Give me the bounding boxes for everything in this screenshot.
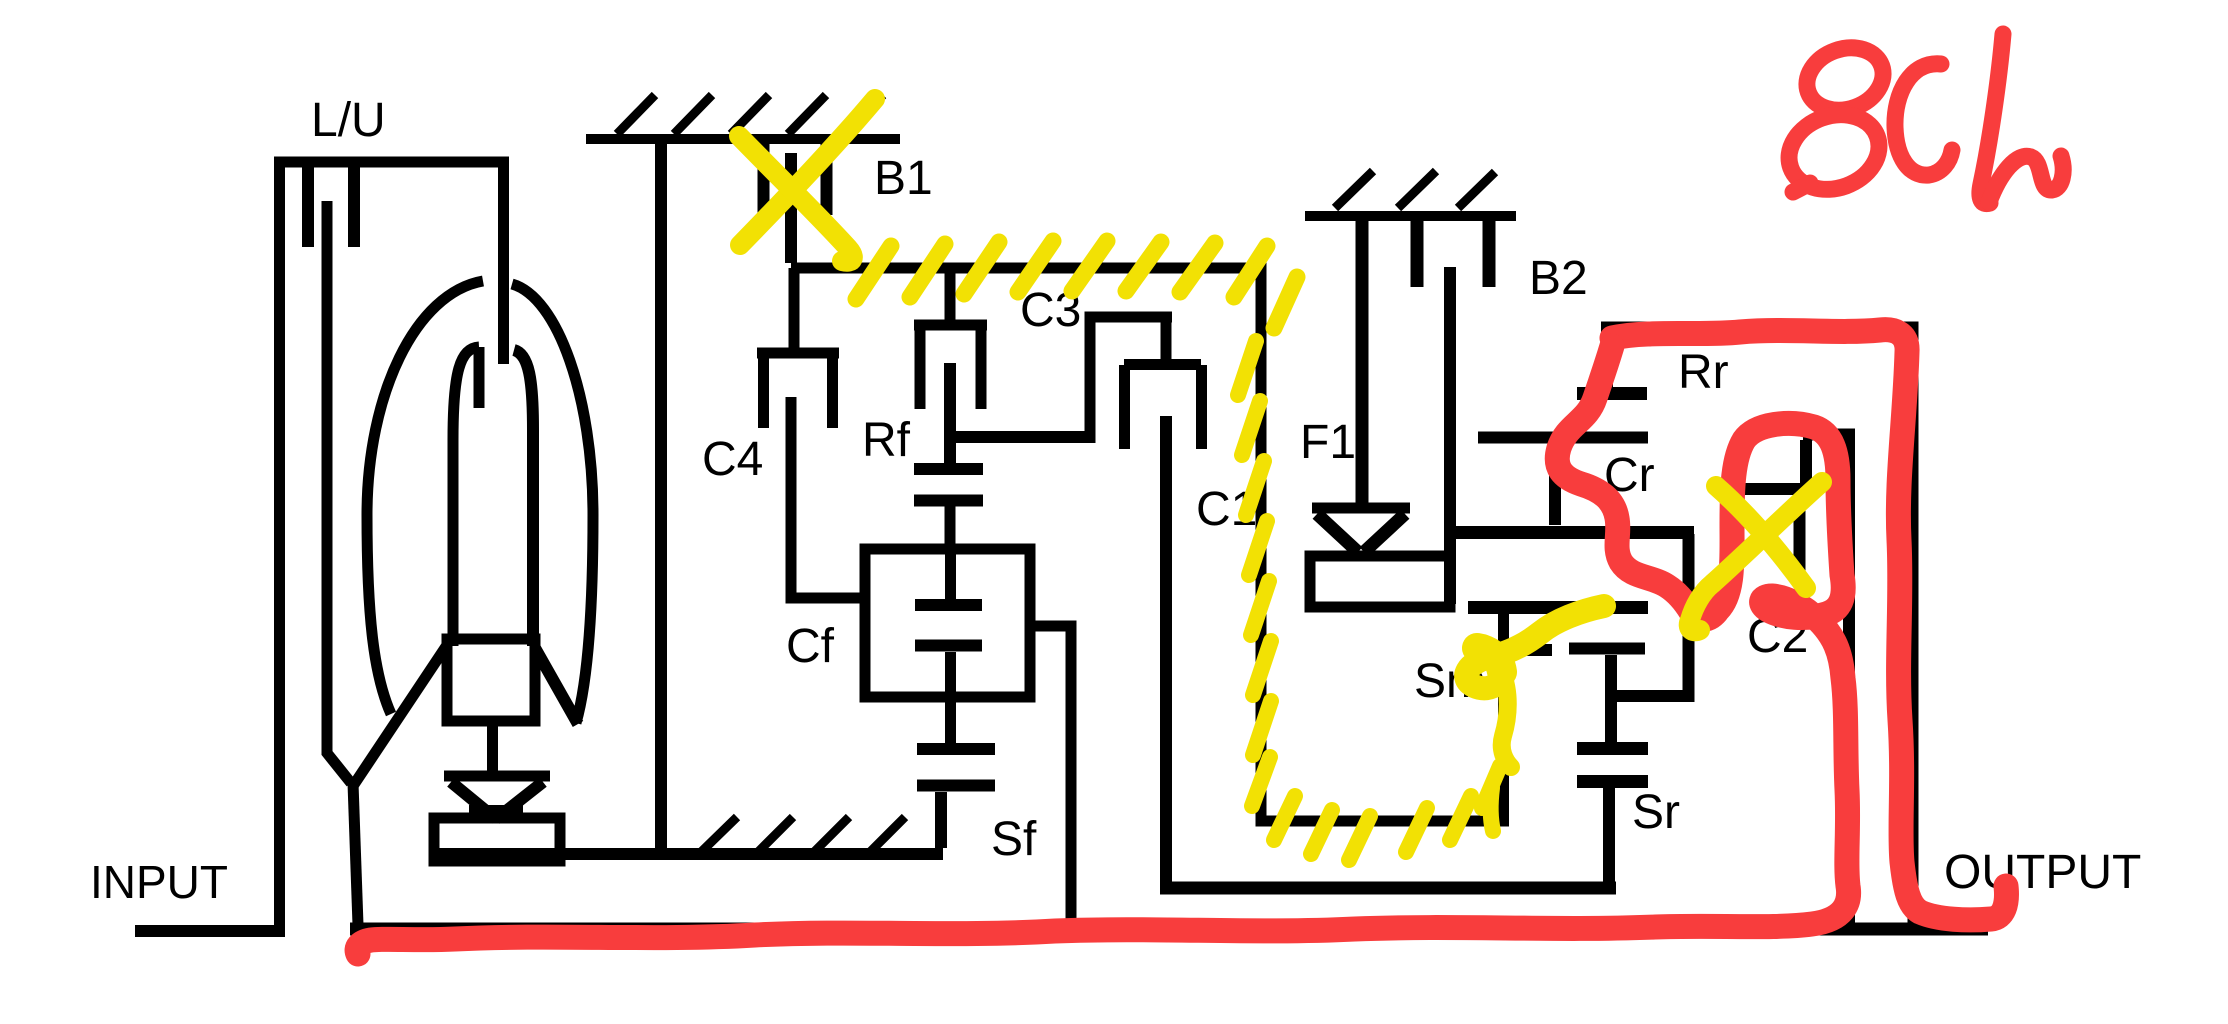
turbine right arch bbox=[514, 350, 578, 724]
one-way clutch F1 bench bbox=[1310, 556, 1450, 607]
rear frame bottom wire bbox=[1160, 882, 1616, 895]
ground hatching top bbox=[617, 95, 883, 134]
output member top line wire bbox=[1601, 327, 1913, 929]
torque converter housing right vertical bbox=[498, 162, 509, 364]
svg-text:Sr: Sr bbox=[1632, 786, 1680, 839]
turbine shaft wire bbox=[327, 201, 351, 783]
sun gear Sr mesh bars bbox=[1577, 749, 1648, 782]
clutch C1 drum top bbox=[1090, 317, 1172, 443]
torque converter housing left vertical wire bbox=[274, 157, 285, 937]
brake B1 stem wire bbox=[785, 153, 797, 263]
clutch C4 drop wire bbox=[789, 268, 800, 352]
wire into Cf box bbox=[945, 549, 956, 599]
stator box bbox=[447, 639, 535, 721]
ground case vertical wire bbox=[655, 139, 667, 854]
stator one-way clutch bar bbox=[444, 771, 550, 782]
clutch C3 inner plate bbox=[944, 363, 956, 463]
svg-text:OUTPUT: OUTPUT bbox=[1944, 846, 2141, 899]
svg-text:L/U: L/U bbox=[311, 94, 386, 147]
stator one-way clutch triangle bbox=[451, 782, 543, 819]
turbine shaft drop to main line wire bbox=[353, 783, 358, 925]
clutch C1 cup bbox=[1124, 365, 1202, 450]
wire Cf to Sf bbox=[945, 652, 956, 743]
svg-text:B2: B2 bbox=[1529, 252, 1588, 305]
svg-text:Sf: Sf bbox=[991, 813, 1037, 866]
lock-up clutch L/U plates bbox=[308, 167, 354, 247]
carrier Cf pinion bars bbox=[915, 605, 982, 646]
turbine left arch bbox=[453, 347, 479, 646]
clutch C4 inner plate wire bbox=[791, 397, 866, 598]
ring gear Rr pinion bar bbox=[1478, 432, 1648, 444]
brake B1 plates bbox=[764, 144, 827, 215]
clutch C1 output stem wire bbox=[1160, 416, 1172, 888]
clutch C2 cup bbox=[1727, 440, 1806, 578]
member B1-C3-Sm long U wire bbox=[791, 268, 1504, 821]
wire C3 to carrier Cf bbox=[945, 506, 956, 549]
clutch C1 drum plate bbox=[1161, 322, 1172, 360]
clutch C4 drum bbox=[757, 353, 839, 428]
svg-text:Rf: Rf bbox=[862, 414, 911, 467]
yellow dashes along vertical member bbox=[1238, 341, 1271, 806]
ring gear Rr stem wire bbox=[1601, 332, 1613, 389]
ring gear Rr mesh bar bbox=[1577, 387, 1647, 400]
red annotation 8th bbox=[1778, 34, 2063, 204]
torque converter outer shell right arc bbox=[512, 284, 593, 723]
svg-text:Rr: Rr bbox=[1678, 346, 1729, 399]
carrier Cr hook wire bbox=[1611, 534, 1689, 696]
main input shaft line wire bbox=[350, 923, 1988, 936]
carrier Cf box bbox=[865, 549, 1030, 697]
yellow scribble over Sm bbox=[1466, 606, 1604, 831]
torque converter housing top bar bbox=[274, 157, 509, 168]
brake B2 stem wire bbox=[1444, 267, 1456, 604]
ground hatching B2 bbox=[1335, 171, 1495, 208]
clutch C2 drum and output wire bbox=[1803, 435, 1849, 930]
sun gear Sm mesh bar lower bbox=[1514, 649, 1645, 651]
carrier Cr line wire bbox=[1444, 526, 1694, 539]
stator stem wire bbox=[487, 721, 498, 771]
stator one-way clutch pedestal bbox=[434, 818, 560, 861]
sun gear Sf stem wire bbox=[935, 792, 947, 848]
sun gear Sr stem wire bbox=[1603, 788, 1615, 888]
wire Rf to C1 bbox=[953, 431, 1090, 443]
torque converter outer shell left arc bbox=[367, 281, 483, 714]
carrier Cf output wire bbox=[1029, 626, 1071, 929]
ground case bottom line bbox=[434, 848, 943, 860]
svg-text:Cf: Cf bbox=[786, 620, 835, 673]
sun gear Sm mesh bar upper bbox=[1468, 601, 1648, 614]
red power flow path left loop and bottom bbox=[357, 346, 1849, 954]
node INPUT wire bbox=[135, 925, 285, 937]
pump diagonal wire bbox=[353, 645, 447, 786]
wire Cr to Rr pinion bbox=[1549, 443, 1561, 525]
ring gear Rf mesh bars bbox=[914, 469, 983, 501]
brake B2 ground bar bbox=[1305, 211, 1516, 221]
sun gear Sf mesh bars bbox=[917, 749, 995, 786]
yellow highlight X over C2 bbox=[1689, 482, 1822, 631]
yellow highlight X over B1 bbox=[739, 99, 875, 262]
one-way clutch F1 stem bbox=[1356, 221, 1369, 503]
svg-text:INPUT: INPUT bbox=[90, 856, 228, 908]
yellow dashes along bottom of U member bbox=[1274, 766, 1500, 860]
wire Sm to Sr pinion stem bbox=[1605, 655, 1617, 742]
svg-text:B1: B1 bbox=[874, 152, 933, 205]
ground hatching bottom bbox=[698, 817, 905, 855]
yellow hatch ticks along B1-C3 line bbox=[856, 241, 1297, 328]
ground bar top bbox=[586, 134, 900, 144]
red power flow path top and right bbox=[357, 330, 2006, 954]
clutch C3 drum bbox=[914, 325, 987, 409]
one-way clutch F1 triangle bbox=[1312, 503, 1410, 514]
svg-text:C4: C4 bbox=[702, 433, 763, 486]
svg-text:F1: F1 bbox=[1300, 416, 1356, 469]
brake B2 plates bbox=[1417, 221, 1489, 287]
clutch C3 stem wire bbox=[945, 268, 956, 320]
